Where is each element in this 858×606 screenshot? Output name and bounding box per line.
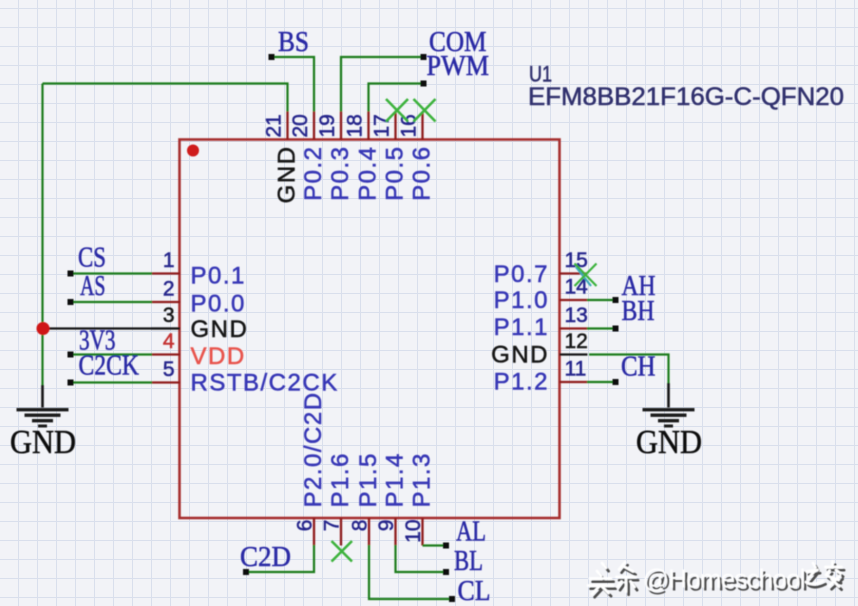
svg-text:20: 20 (289, 114, 312, 137)
pin-1 marker dot (187, 145, 199, 157)
pin 2 (P0.0) left (152, 278, 246, 318)
svg-text:P0.7: P0.7 (494, 261, 549, 288)
no-connect X pin 17 (386, 99, 408, 122)
ground left (10, 385, 76, 461)
svg-text:AS: AS (80, 271, 106, 302)
svg-text:2: 2 (163, 278, 175, 301)
svg-text:P1.5: P1.5 (355, 452, 382, 507)
wire CS to pin 1 (71, 272, 153, 274)
wire C2CK to pin 5 (71, 381, 153, 383)
svg-text:EFM8BB21F16G-C-QFN20: EFM8BB21F16G-C-QFN20 (528, 83, 844, 111)
node tick C2CK (68, 380, 74, 386)
svg-text:P1.6: P1.6 (327, 452, 354, 507)
pin 20 (P0.2) top (289, 112, 327, 201)
node tick CL (449, 596, 455, 602)
svg-text:BL: BL (454, 546, 483, 577)
wire CL to pin 8 (369, 545, 452, 599)
node tick C2D (243, 569, 249, 575)
node tick CH (613, 379, 619, 385)
wire CH to pin 11 (587, 381, 616, 383)
wire BL to pin 9 (396, 545, 447, 572)
svg-text:6: 6 (294, 520, 317, 532)
svg-text:GND: GND (10, 424, 76, 461)
svg-text:P2.0/C2D: P2.0/C2D (300, 391, 327, 507)
pin 7 (P1.6) bottom (321, 452, 355, 545)
svg-text:GND: GND (191, 316, 249, 343)
wire AL to pin 10 (423, 544, 447, 546)
node tick BS (269, 54, 275, 60)
pin 21 (GND) top (263, 112, 301, 204)
pin 17 (P0.5) top (371, 112, 409, 201)
wire GND rail to pin 21 (43, 84, 288, 112)
pin 13 (P1.1) right (494, 304, 588, 341)
watermark (588, 562, 844, 598)
pin 18 (P0.4) top (344, 112, 382, 201)
svg-text:1: 1 (163, 249, 175, 272)
svg-text:3: 3 (163, 304, 175, 327)
wire PWM to pin 18 (369, 84, 424, 112)
node tick PWM (421, 81, 427, 87)
svg-text:C2D: C2D (240, 542, 291, 573)
no-connect X pin 7 (332, 541, 353, 562)
node tick AH (613, 297, 619, 303)
svg-text:P0.6: P0.6 (409, 146, 436, 201)
svg-text:AL: AL (456, 517, 486, 548)
svg-text:CS: CS (78, 243, 106, 274)
pin 4 (VDD) left (152, 330, 246, 370)
pin 16 (P0.6) top (398, 112, 436, 201)
wire left GND rail vertical (41, 84, 43, 386)
node tick BL (443, 569, 449, 575)
pin 9 (P1.4) bottom (375, 452, 409, 545)
svg-text:BS: BS (278, 27, 309, 58)
wire BH to pin 13 (587, 327, 616, 329)
pin 6 (P2.0/C2D) bottom (294, 391, 328, 545)
pin 1 (P0.1) left (152, 249, 246, 290)
wire COM to pin 19 (341, 57, 424, 112)
wire AS to pin 2 (71, 301, 153, 303)
svg-text:13: 13 (565, 304, 588, 327)
ground right (636, 383, 702, 461)
svg-text:10: 10 (402, 520, 425, 543)
svg-text:PWM: PWM (427, 51, 490, 82)
pin 10 (P1.3) bottom (402, 452, 436, 545)
svg-text:18: 18 (344, 114, 367, 137)
no-connect X pin 15 (575, 264, 597, 287)
svg-text:12: 12 (565, 330, 588, 353)
svg-text:P1.1: P1.1 (494, 314, 549, 341)
svg-text:CH: CH (621, 352, 656, 383)
pin 14 (P1.0) right (494, 276, 589, 315)
svg-text:CL: CL (458, 576, 491, 606)
svg-text:7: 7 (321, 520, 344, 532)
svg-text:21: 21 (263, 114, 286, 137)
wire AH to pin 14 (587, 299, 616, 301)
svg-text:P0.0: P0.0 (191, 291, 246, 318)
pin 15 (P0.7) right (494, 249, 588, 288)
pin 12 (GND) right (491, 330, 588, 369)
svg-text:P1.3: P1.3 (409, 452, 436, 507)
svg-text:19: 19 (316, 114, 339, 137)
svg-text:P0.1: P0.1 (191, 263, 246, 290)
svg-text:VDD: VDD (191, 343, 246, 370)
pin 19 (P0.3) top (316, 112, 354, 201)
svg-text:C2CK: C2CK (79, 351, 140, 382)
svg-text:P1.2: P1.2 (494, 369, 549, 396)
svg-text:GND: GND (491, 342, 549, 369)
node tick CS (68, 271, 74, 277)
wire 3V3 to pin 4 (71, 353, 153, 355)
pin 5 (RSTB/C2CK) left (152, 358, 339, 397)
node tick AL (443, 543, 449, 549)
svg-text:@Homeschool: @Homeschool (643, 564, 805, 594)
svg-text:P0.2: P0.2 (300, 146, 327, 201)
node tick BH (613, 326, 619, 332)
svg-text:P1.0: P1.0 (494, 287, 549, 314)
wire pin 12 to right ground (589, 355, 669, 384)
node tick 3V3 (68, 352, 74, 358)
pin 11 (P1.2) right (494, 358, 588, 396)
svg-text:11: 11 (565, 358, 587, 381)
svg-text:P0.5: P0.5 (382, 146, 409, 201)
node tick COM (421, 54, 427, 60)
IC U1 body (180, 140, 560, 519)
svg-text:P0.3: P0.3 (327, 146, 354, 201)
svg-text:9: 9 (375, 520, 398, 532)
svg-text:4: 4 (163, 330, 175, 353)
node tick AS (68, 299, 74, 305)
svg-text:BH: BH (622, 296, 655, 327)
wire BS to pin 20 (272, 57, 315, 112)
svg-text:GND: GND (636, 424, 702, 461)
wire C2D to pin 6 (246, 545, 314, 572)
wire GND to pin 3 (43, 327, 181, 329)
junction on GND rail (37, 322, 50, 335)
svg-text:P0.4: P0.4 (355, 146, 382, 201)
svg-text:5: 5 (163, 358, 175, 381)
svg-text:P1.4: P1.4 (382, 452, 409, 507)
svg-text:GND: GND (274, 146, 301, 204)
svg-text:8: 8 (349, 520, 372, 532)
no-connect X pin 16 (414, 99, 436, 122)
pin 3 (GND) left (152, 304, 249, 343)
pin 8 (P1.5) bottom (349, 452, 383, 545)
